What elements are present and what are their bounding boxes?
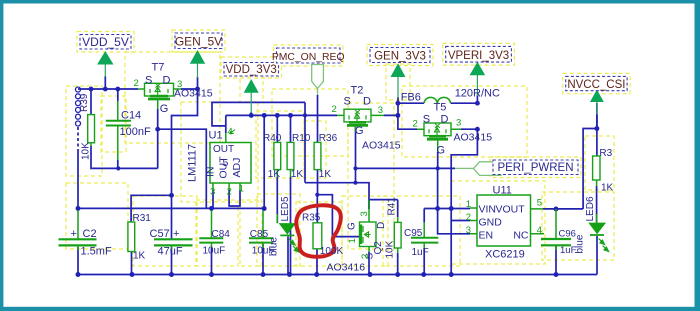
svg-text:10K: 10K	[385, 240, 396, 258]
wire NVCC column	[596, 103, 598, 129]
wire R3 to LED6	[596, 186, 598, 223]
power arrow VDD_3V3	[244, 79, 259, 113]
led LED6	[588, 214, 608, 252]
svg-text:LED5: LED5	[280, 196, 291, 221]
wire 3v3 upper run	[212, 102, 305, 126]
junction dots ground rail	[76, 272, 81, 277]
svg-text:T2: T2	[351, 85, 364, 97]
svg-text:VIN: VIN	[479, 203, 497, 215]
svg-text:LED6: LED6	[585, 196, 596, 221]
svg-text:2: 2	[227, 186, 232, 197]
svg-text:120R/NC: 120R/NC	[455, 88, 500, 100]
junction dots mid rail	[76, 206, 81, 211]
led LED5	[277, 214, 299, 252]
wire left bus dashed	[77, 127, 79, 150]
junction dots top rail	[89, 87, 94, 92]
wire U1 pin3 down	[212, 190, 214, 208]
wire 3v3 rail	[226, 114, 398, 116]
svg-text:1: 1	[347, 238, 358, 243]
wire C95 top corner	[423, 209, 425, 223]
highlight box Q2	[342, 196, 388, 266]
wire R39 top	[90, 89, 92, 115]
flag PMC_ON_REQ	[312, 65, 324, 89]
wire C96 bottom	[555, 246, 557, 275]
svg-text:G: G	[160, 103, 169, 115]
junction dots gate net	[353, 166, 357, 170]
highlight box PERI label	[490, 157, 581, 178]
resistor R3	[593, 156, 600, 186]
resistor R35	[313, 223, 322, 249]
svg-text:C14: C14	[121, 110, 141, 122]
wire T2 gate column	[355, 124, 357, 183]
svg-text:10K: 10K	[81, 142, 92, 160]
svg-text:C96: C96	[559, 229, 576, 240]
capacitor C14	[106, 101, 131, 160]
svg-text:R31: R31	[133, 213, 152, 224]
highlight box GEN_3V3 label	[367, 45, 433, 66]
svg-text:3: 3	[210, 186, 215, 197]
svg-text:1: 1	[466, 199, 471, 210]
wire left column	[77, 150, 79, 208]
wire ferrite run left	[398, 102, 424, 104]
highlight box U11	[451, 181, 545, 264]
red highlight ellipse R35	[296, 205, 341, 256]
highlight box VDD_5V label	[77, 32, 134, 53]
wire Q2 pin3 drop	[368, 200, 370, 209]
capacitor C57	[154, 196, 193, 250]
net label NVCC_CSI	[566, 76, 627, 90]
svg-text:U11: U11	[493, 184, 512, 196]
svg-text:3: 3	[177, 79, 182, 90]
capacitor C2	[59, 211, 97, 251]
svg-text:VDD_5V: VDD_5V	[82, 35, 129, 49]
ic U1 pin stubs	[213, 133, 240, 190]
svg-text:4: 4	[228, 127, 233, 138]
net label GEN_3V3	[370, 48, 430, 63]
capacitor C84	[199, 211, 223, 249]
svg-text:D: D	[363, 96, 371, 108]
resistor R31	[128, 222, 135, 252]
svg-text:OUT: OUT	[218, 156, 230, 179]
svg-text:3: 3	[378, 105, 383, 116]
wire EN branch	[438, 209, 470, 234]
svg-text:1uF: 1uF	[412, 247, 429, 258]
svg-text:3: 3	[466, 225, 471, 236]
wire C84 bottom	[211, 248, 213, 275]
svg-text:AO3415: AO3415	[362, 140, 401, 152]
highlight box VPERI label	[443, 43, 515, 65]
svg-text:R3: R3	[599, 148, 612, 159]
wire R41 bottom	[397, 253, 399, 275]
svg-text:C95: C95	[404, 228, 423, 239]
wire VDD_3V3 stem lower	[250, 112, 252, 115]
svg-text:5: 5	[537, 197, 542, 208]
highlight box R40 R10	[256, 111, 304, 178]
capacitor C96	[541, 209, 571, 250]
svg-text:1K: 1K	[319, 169, 332, 180]
svg-text:C84: C84	[212, 229, 231, 240]
wire 3v3 upper drop	[304, 102, 306, 182]
power arrow GEN_3V3	[391, 63, 406, 98]
wire VPERI stem lower	[476, 95, 478, 103]
svg-text:FB6: FB6	[401, 92, 421, 104]
wire U11 gnd branch	[451, 220, 470, 222]
svg-text:AO3416: AO3416	[327, 262, 366, 274]
wire R40 column	[276, 115, 278, 223]
svg-text:R41: R41	[387, 197, 398, 216]
svg-text:GEN_3V3: GEN_3V3	[374, 50, 426, 62]
svg-text:S: S	[423, 114, 430, 126]
svg-text:2: 2	[332, 104, 337, 115]
svg-text:VDD_3V3: VDD_3V3	[226, 64, 277, 76]
power arrow GEN_5V	[190, 50, 205, 78]
wire PERI_PWREN branch	[583, 129, 597, 209]
wire R10 column	[290, 115, 292, 274]
svg-text:1K: 1K	[601, 182, 614, 193]
svg-text:LM1117: LM1117	[187, 144, 199, 182]
svg-text:R10: R10	[292, 133, 311, 144]
wire C14 top	[117, 89, 119, 101]
svg-text:G: G	[437, 145, 446, 157]
junction dots 3v3 rail	[249, 113, 254, 118]
svg-text:4: 4	[537, 225, 542, 236]
highlight box NVCC label	[563, 73, 630, 93]
svg-text:U1: U1	[209, 130, 223, 142]
wire C57 bottom	[171, 247, 173, 275]
svg-text:ADJ: ADJ	[231, 158, 243, 178]
junction dots VPERI	[475, 101, 480, 106]
wire T5 source feed	[398, 115, 417, 129]
wire T5 gate lower	[437, 152, 439, 209]
svg-text:1K: 1K	[133, 251, 146, 262]
highlight box GEN_5V label	[172, 30, 225, 52]
svg-text:IN: IN	[205, 167, 217, 178]
wire LED6 cathode	[596, 236, 598, 275]
svg-text:GEN_5V: GEN_5V	[175, 35, 222, 49]
highlight box GEN_3V3 stem	[386, 64, 410, 100]
wire T5 drain to dot	[461, 128, 477, 130]
svg-text:D: D	[376, 222, 387, 229]
wire C85 bottom	[262, 244, 264, 275]
svg-text:+: +	[71, 228, 77, 240]
wire R39 bottom to gate net	[91, 146, 158, 168]
net label GEN_5V	[175, 33, 222, 49]
svg-text:R36: R36	[319, 133, 338, 144]
wire stems navy parts	[105, 76, 597, 129]
pin arrow U1 4	[230, 130, 236, 134]
highlight box T7 group	[125, 52, 220, 143]
wire PMC flag tail	[317, 89, 319, 95]
svg-text:OUT: OUT	[213, 144, 234, 155]
svg-text:47uF: 47uF	[158, 246, 183, 258]
net label VPERI_3V3	[446, 46, 512, 62]
highlight box R39 group	[66, 86, 102, 176]
wire GEN_5V drain net	[131, 89, 197, 239]
highlight box U1 group	[181, 102, 258, 202]
highlight box C14 column	[101, 96, 126, 152]
power arrow NVCC_CSI	[590, 90, 604, 115]
wire R3 top	[596, 129, 598, 157]
highlight box R3	[585, 136, 614, 190]
wire C85 riser	[263, 115, 265, 208]
wire VPERI column	[451, 129, 477, 274]
svg-text:C2: C2	[83, 228, 97, 240]
wire VDD_5V rail	[78, 88, 198, 90]
svg-text:VPERI_3V3: VPERI_3V3	[448, 50, 509, 62]
svg-text:GND: GND	[479, 216, 503, 228]
highlight box VDD_3V3 stem	[240, 76, 263, 102]
wire GEN_3V3 stem lower	[397, 97, 399, 115]
svg-text:10uF: 10uF	[203, 246, 226, 257]
junction dot C57 top	[169, 193, 174, 198]
svg-text:1K: 1K	[268, 169, 281, 180]
wire R31 bottom	[131, 252, 133, 275]
ic U11 pin stubs	[470, 208, 544, 234]
highlight box C2	[66, 183, 128, 249]
svg-text:R39: R39	[79, 93, 90, 112]
svg-text:2: 2	[413, 118, 418, 129]
resistor R36	[314, 142, 321, 169]
highlight box LED5	[257, 194, 300, 266]
svg-text:VOUT: VOUT	[496, 203, 526, 215]
connector rings left bus	[76, 87, 81, 92]
transistor T2	[337, 109, 384, 132]
highlight box C57	[133, 196, 197, 266]
svg-text:G: G	[355, 125, 364, 137]
wire LED5 cathode	[287, 237, 289, 275]
wire Q2 source down	[368, 252, 370, 275]
svg-text:+: +	[173, 228, 179, 240]
ferrite bead FB6	[424, 97, 451, 103]
connector hexagon PERI_PWREN	[455, 162, 501, 176]
transistor T5	[417, 123, 461, 152]
junction dot GEN_3V3	[395, 101, 400, 106]
svg-text:blue: blue	[575, 234, 586, 253]
highlight box T2 group	[272, 89, 348, 156]
wire gate row 182	[305, 183, 398, 209]
wire T7 gate	[157, 109, 159, 129]
junction dot C14 bottom	[116, 166, 120, 170]
power arrow VPERI_3V3	[470, 62, 486, 96]
power arrow VDD_5V	[97, 51, 113, 77]
highlight box R35	[296, 202, 342, 266]
ic U11 body	[477, 195, 531, 246]
wire ferrite run right	[451, 102, 478, 104]
net label PMC_ON_REQ	[272, 48, 345, 63]
svg-text:100K: 100K	[320, 246, 344, 257]
svg-text:AO3415: AO3415	[454, 132, 493, 144]
svg-text:EN: EN	[479, 229, 494, 241]
resistor R39	[88, 115, 95, 146]
svg-text:XC6219: XC6219	[485, 248, 525, 260]
svg-text:100nF: 100nF	[120, 126, 151, 138]
svg-text:1K: 1K	[291, 169, 304, 180]
svg-text:3: 3	[359, 211, 370, 216]
wire C95 bottom	[423, 248, 425, 275]
svg-text:C85: C85	[250, 229, 269, 240]
highlight box R36	[304, 121, 326, 178]
wire Q2 gate feed	[317, 195, 359, 237]
junction dots vin row	[435, 206, 440, 211]
wire R41 top	[397, 200, 399, 218]
wire PMC column	[316, 95, 319, 275]
highlight box tall column	[348, 103, 394, 249]
wire U11 vin row	[424, 208, 470, 210]
svg-text:2: 2	[466, 212, 471, 223]
wire C2 bottom	[77, 247, 79, 275]
wire mid rail	[78, 207, 264, 209]
svg-text:Q2: Q2	[373, 241, 384, 255]
svg-text:S: S	[145, 75, 152, 87]
capacitor C85	[249, 211, 273, 249]
wire U1 pin4 riser	[225, 115, 227, 133]
svg-text:D: D	[163, 75, 171, 87]
transistor Q2	[360, 200, 377, 252]
highlight box C84	[196, 200, 238, 266]
svg-text:NVCC_CSI: NVCC_CSI	[567, 79, 625, 91]
wire C14 bottom	[117, 160, 119, 168]
highlight box C85	[240, 200, 262, 266]
highlight box R41 C95	[383, 196, 460, 266]
net label VDD_5V	[80, 35, 131, 50]
svg-text:S: S	[344, 96, 351, 108]
svg-text:T7: T7	[152, 62, 165, 74]
svg-text:NC: NC	[513, 229, 529, 241]
highlight box C96 LED6	[542, 192, 614, 260]
svg-text:D: D	[441, 114, 449, 126]
highlight box T5 FB6 group	[402, 86, 527, 157]
svg-text:C57: C57	[150, 228, 170, 240]
net label PERI_PWREN	[493, 160, 578, 175]
junction dot NVCC	[594, 126, 599, 131]
svg-text:1: 1	[239, 183, 244, 194]
wire U11 vout run	[543, 208, 583, 210]
resistor R10	[287, 142, 294, 177]
svg-text:1.5mF: 1.5mF	[81, 246, 112, 258]
net label VDD_3V3	[224, 63, 279, 77]
junction dot T7 gate	[155, 127, 160, 132]
highlight box PMC label	[274, 45, 344, 66]
resistor R40	[274, 142, 281, 177]
svg-text:T5: T5	[434, 102, 447, 114]
wire ground rail	[78, 274, 597, 276]
svg-text:R40: R40	[263, 133, 282, 144]
svg-text:2: 2	[360, 254, 371, 259]
highlight box VDD_3V3 label	[221, 57, 282, 78]
svg-text:2: 2	[134, 78, 139, 89]
svg-text:R35: R35	[302, 212, 321, 223]
svg-text:PERI_PWREN: PERI_PWREN	[497, 162, 573, 174]
capacitor C95	[411, 222, 438, 248]
wire gate net right run	[356, 167, 456, 169]
ic U1 body	[210, 143, 251, 184]
svg-text:PMC_ON_REQ: PMC_ON_REQ	[272, 52, 345, 63]
svg-text:blue: blue	[269, 237, 280, 256]
wire U1 pin2 pin1 loop	[229, 190, 240, 206]
svg-text:G: G	[347, 222, 358, 230]
transistor T7	[138, 83, 181, 109]
wire gate net to U1 area	[158, 129, 207, 208]
wire gate net down leg	[157, 129, 159, 168]
resistor R41	[394, 217, 401, 253]
svg-text:3: 3	[456, 117, 461, 128]
